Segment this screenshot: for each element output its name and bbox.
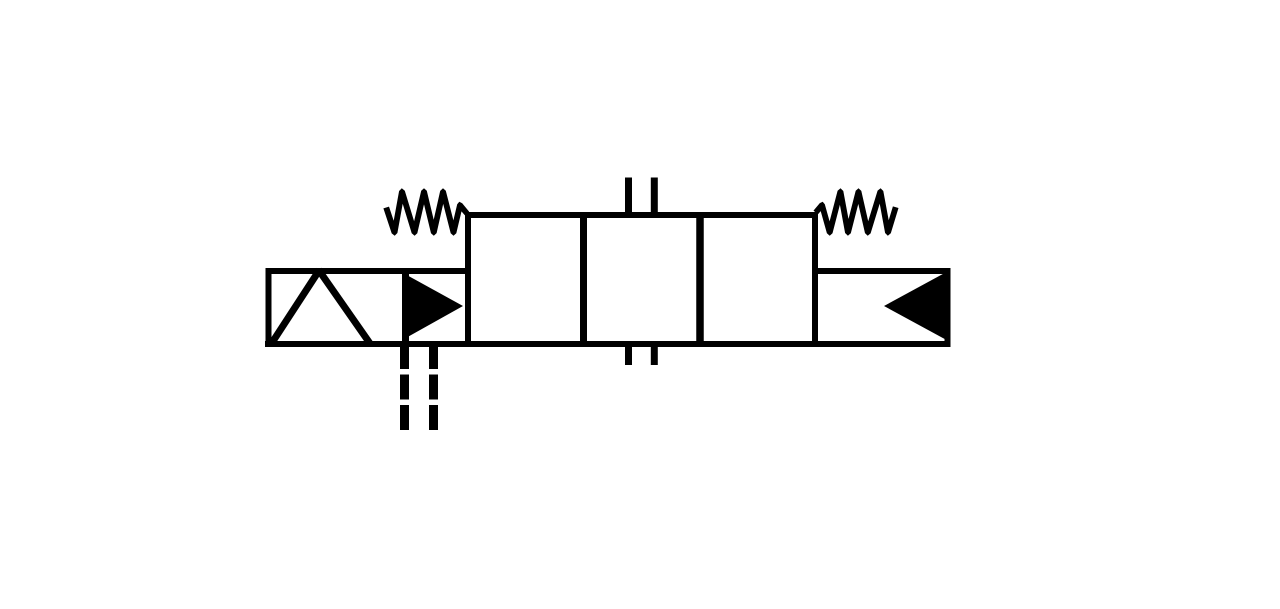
top port stub 1 bbox=[625, 178, 632, 219]
left pilot arrow (solid, pointing right) bbox=[404, 274, 463, 340]
top port stub 2 bbox=[651, 178, 658, 219]
spring right bbox=[814, 188, 899, 235]
pilot drain dashed line 2 bbox=[429, 344, 438, 431]
position divider left bbox=[580, 212, 587, 347]
pilot drain dashed line 1 bbox=[400, 344, 409, 431]
bottom port stub 2 bbox=[651, 343, 658, 365]
position divider right bbox=[696, 212, 704, 347]
wire bottom rail bbox=[265, 341, 949, 347]
valve body outline (3-position envelope) bbox=[468, 215, 815, 344]
right pilot operator box bbox=[815, 271, 948, 344]
spring left bbox=[383, 188, 469, 235]
right pilot arrow (solid, pointing left) bbox=[884, 272, 947, 340]
left pilot operator box bbox=[269, 271, 469, 344]
pilot symbol triangle left leg bbox=[272, 270, 320, 344]
left pilot operator divider bbox=[402, 268, 409, 347]
pilot symbol triangle right leg bbox=[319, 270, 371, 344]
bottom port stub 1 bbox=[625, 343, 632, 365]
